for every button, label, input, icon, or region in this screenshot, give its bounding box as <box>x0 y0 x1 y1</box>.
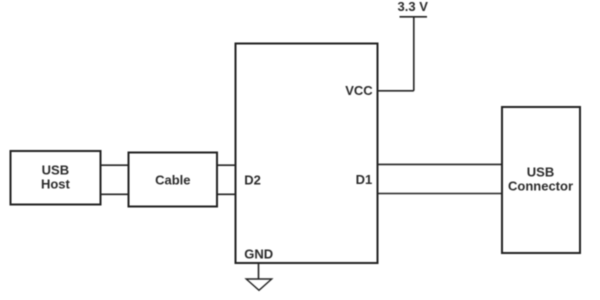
svg-text:USB: USB <box>527 164 554 179</box>
svg-text:D1: D1 <box>356 172 373 187</box>
svg-text:Connector: Connector <box>508 178 573 193</box>
svg-text:USB: USB <box>42 163 69 178</box>
svg-text:Host: Host <box>41 177 71 192</box>
svg-text:Cable: Cable <box>155 172 190 187</box>
svg-text:VCC: VCC <box>345 83 373 98</box>
svg-text:GND: GND <box>244 246 273 261</box>
svg-text:D2: D2 <box>244 172 261 187</box>
svg-text:3.3 V: 3.3 V <box>398 0 429 14</box>
